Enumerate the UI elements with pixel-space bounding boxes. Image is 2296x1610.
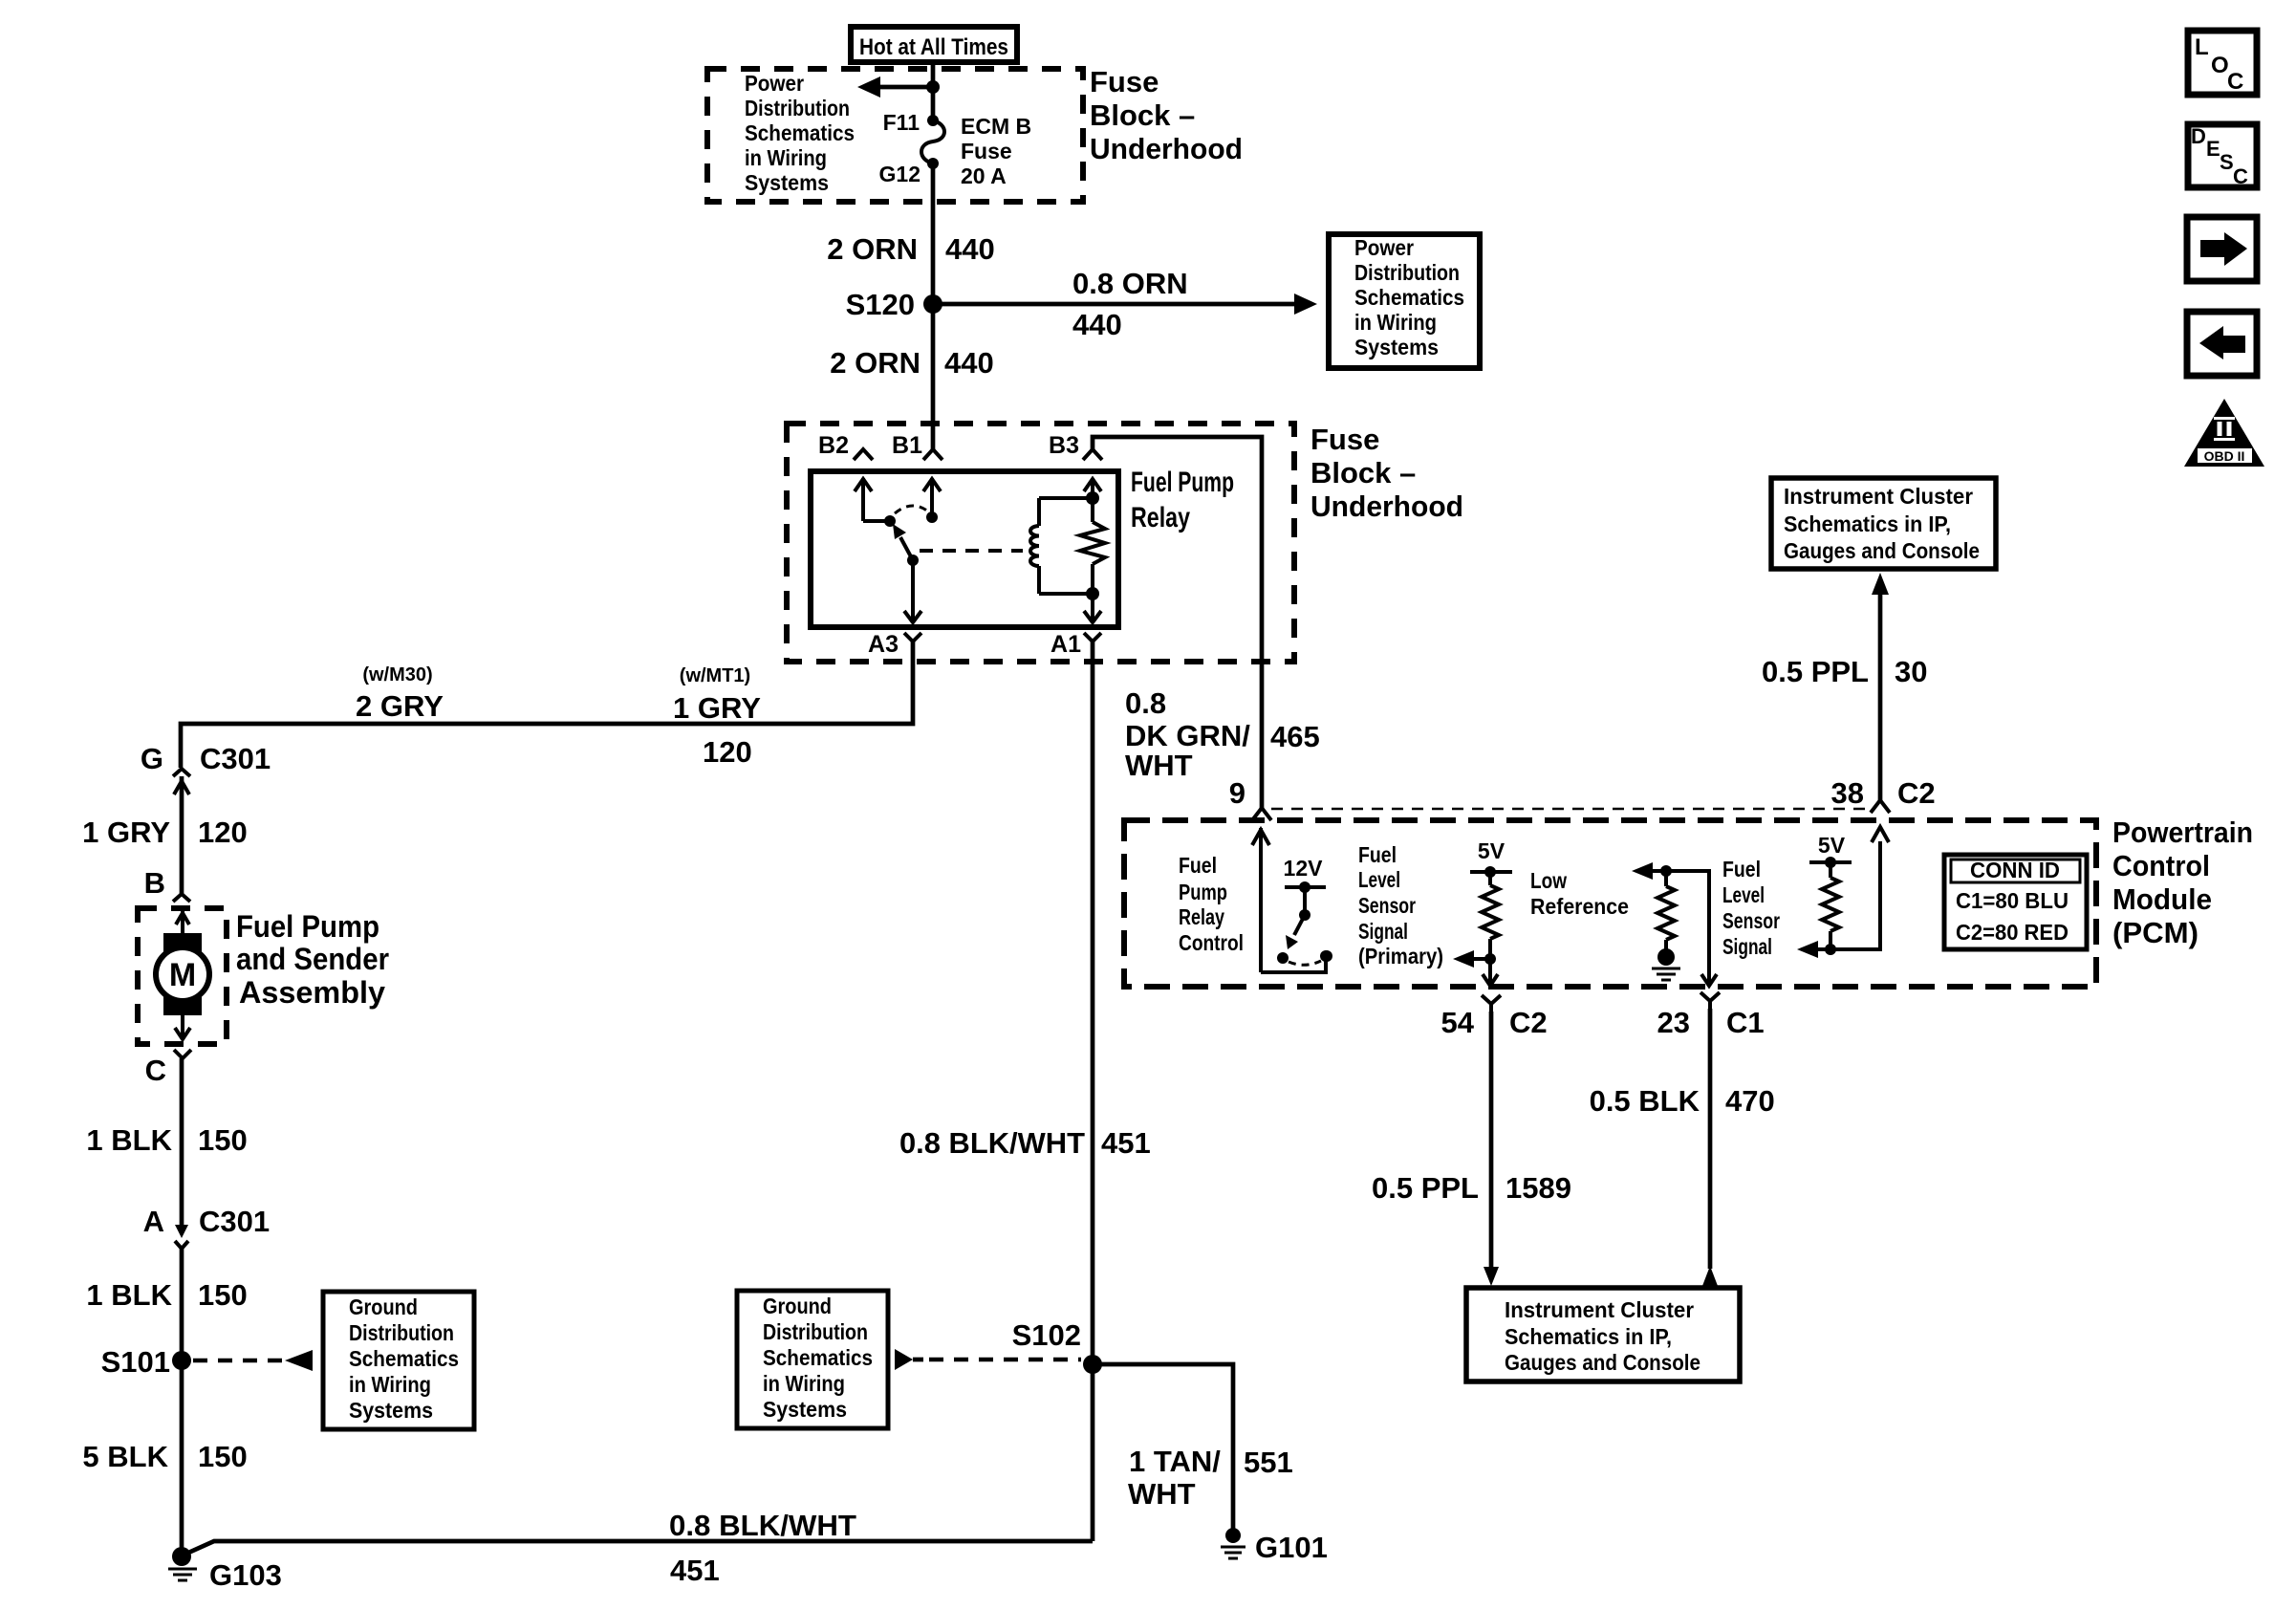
svg-text:in Wiring: in Wiring (1354, 310, 1437, 335)
svg-text:54: 54 (1441, 1006, 1475, 1039)
svg-text:C301: C301 (200, 742, 271, 775)
relay switch movable arm (893, 524, 919, 566)
wire pin 38 up to instrument cluster (0.5 PPL 30) (1872, 573, 1889, 800)
svg-text:Distribution: Distribution (763, 1319, 868, 1344)
icon right-arrow button (2187, 217, 2257, 281)
relay switch output to A3 (904, 560, 921, 622)
relay internal resistor (B3-A1) (1080, 478, 1105, 622)
svg-text:ECM B: ECM B (961, 114, 1031, 139)
resistor fuel level signal primary (5V pull-up) (1470, 838, 1512, 965)
svg-text:in Wiring: in Wiring (745, 145, 827, 170)
icon OBD II symbol (2184, 399, 2264, 467)
wire label 1 TAN/WHT 551 (1128, 1445, 1293, 1511)
svg-text:Control: Control (2112, 849, 2210, 882)
wire S101 down to G103 (180, 1360, 184, 1556)
svg-text:(w/MT1): (w/MT1) (680, 665, 750, 686)
svg-text:Schematics in IP,: Schematics in IP, (1784, 511, 1951, 536)
PCM U1 powertrain control module dashed box (1124, 820, 2096, 987)
svg-text:Gauges and Console: Gauges and Console (1505, 1350, 1700, 1375)
svg-text:C: C (2233, 164, 2248, 188)
arrow primary signal to pin 54 (1453, 950, 1498, 986)
reference box Power Distribution Schematics in Wiring Systems (right) (1329, 234, 1480, 368)
svg-text:Fuse: Fuse (1310, 423, 1379, 456)
svg-text:Sensor: Sensor (1358, 893, 1416, 918)
svg-text:B2: B2 (818, 432, 849, 459)
svg-text:D: D (2191, 124, 2206, 148)
svg-text:C1: C1 (1726, 1006, 1765, 1039)
ground G101 (1221, 1528, 1328, 1564)
label Powertrain Control Module (PCM) (2112, 816, 2253, 949)
svg-text:38: 38 (1831, 776, 1864, 810)
svg-text:Fuel: Fuel (1179, 853, 1217, 878)
svg-text:120: 120 (703, 735, 752, 769)
svg-text:440: 440 (944, 346, 994, 380)
svg-text:0.5 PPL: 0.5 PPL (1762, 655, 1869, 688)
pin 54 connector and label (1441, 995, 1548, 1039)
pin B2 label and connector (818, 432, 873, 460)
svg-text:WHT: WHT (1125, 749, 1193, 782)
svg-text:Hot at All Times: Hot at All Times (859, 34, 1008, 60)
svg-text:C: C (2227, 69, 2243, 95)
svg-text:Gauges and Console: Gauges and Console (1784, 538, 1980, 563)
svg-text:Module: Module (2112, 882, 2212, 916)
dashed reference wire S101 to ground distribution box (193, 1350, 313, 1371)
svg-text:Instrument Cluster: Instrument Cluster (1784, 484, 1973, 509)
svg-text:23: 23 (1657, 1006, 1690, 1039)
svg-text:(w/M30): (w/M30) (362, 664, 432, 685)
node S101 splice (101, 1345, 191, 1379)
pin 38 connector and label (1831, 776, 1936, 813)
wire label 0.8 BLK/WHT 451 (vertical run) (899, 1126, 1151, 1160)
fuse ECM B 20A (921, 115, 944, 169)
wire label 5 BLK 150 (82, 1440, 247, 1473)
svg-text:S102: S102 (1012, 1318, 1081, 1352)
svg-text:Distribution: Distribution (349, 1320, 454, 1345)
svg-text:in Wiring: in Wiring (763, 1371, 845, 1396)
wire C down to connector C301 pin A (180, 1058, 184, 1229)
icon left-arrow button (2187, 312, 2257, 376)
label Fuel Level Sensor Signal (1722, 857, 1780, 959)
svg-text:Systems: Systems (349, 1398, 433, 1423)
wire label 0.5 PPL 30 (1762, 655, 1927, 688)
svg-text:and Sender: and Sender (236, 942, 389, 976)
pin A1 label and connector (1051, 631, 1101, 658)
fuel pump and sender assembly dashed box (138, 908, 227, 1044)
svg-text:in Wiring: in Wiring (349, 1372, 431, 1397)
svg-text:S: S (2220, 150, 2234, 174)
svg-text:Pump: Pump (1179, 880, 1227, 904)
wire label 0.8 DK GRN/WHT 465 (1125, 686, 1320, 782)
svg-text:9: 9 (1229, 776, 1245, 810)
svg-text:0.8 ORN: 0.8 ORN (1072, 267, 1188, 300)
svg-text:2 GRY: 2 GRY (356, 689, 444, 723)
svg-text:Ground: Ground (763, 1294, 832, 1318)
svg-text:30: 30 (1895, 655, 1927, 688)
svg-text:Relay: Relay (1179, 904, 1224, 929)
svg-text:20 A: 20 A (961, 163, 1007, 188)
wire label 2 ORN 440 (upper) (827, 232, 994, 266)
svg-text:Power: Power (745, 71, 804, 96)
svg-text:Control: Control (1179, 930, 1244, 955)
fuse block underhood (top) dashed box (707, 69, 1083, 202)
svg-text:C2: C2 (1509, 1006, 1548, 1039)
wire label 1 GRY 120 (82, 816, 248, 849)
label Fuel Level Sensor Signal (Primary) (1358, 842, 1443, 968)
reference box Ground Distribution Schematics in Wiring Systems (middle) (737, 1291, 888, 1428)
wire label 2 ORN 440 (lower) (830, 346, 993, 380)
svg-text:0.5 BLK: 0.5 BLK (1590, 1084, 1700, 1118)
svg-text:12V: 12V (1284, 856, 1324, 881)
icon LOC button (2188, 31, 2257, 95)
svg-text:Level: Level (1722, 882, 1765, 907)
svg-text:Distribution: Distribution (745, 96, 850, 120)
svg-text:Schematics in IP,: Schematics in IP, (1505, 1324, 1672, 1349)
svg-text:Distribution: Distribution (1354, 260, 1460, 285)
svg-text:C2=80 RED: C2=80 RED (1956, 920, 2069, 945)
svg-text:150: 150 (198, 1440, 248, 1473)
wire A3 down, left and to fuel pump (GRY 120) (181, 642, 913, 768)
label Fuel Pump and Sender Assembly (236, 909, 389, 1010)
wire label (w/MT1) 1 GRY 120 (673, 665, 761, 769)
svg-text:S101: S101 (101, 1345, 170, 1379)
pin 9 connector chevron (1252, 808, 1271, 820)
svg-text:150: 150 (198, 1278, 248, 1312)
svg-text:M: M (169, 957, 196, 993)
svg-text:Ground: Ground (349, 1295, 418, 1319)
svg-text:Fuse: Fuse (1090, 65, 1159, 98)
pin B3 label and connector (1049, 432, 1102, 460)
svg-text:O: O (2211, 53, 2229, 78)
label Low Reference (1530, 868, 1629, 919)
reference box Instrument Cluster Schematics in IP, Gauges and Console (top) (1771, 478, 1996, 569)
svg-text:Schematics: Schematics (745, 120, 855, 145)
svg-text:Systems: Systems (1354, 335, 1439, 359)
reference box Instrument Cluster Schematics in IP, Gauges and Console (bottom) (1466, 1288, 1740, 1382)
svg-text:Powertrain: Powertrain (2112, 816, 2253, 849)
motor M fuel pump (156, 911, 209, 1039)
svg-text:G12: G12 (879, 162, 921, 186)
svg-text:E: E (2206, 137, 2220, 161)
relay actuation dashed link (920, 549, 1023, 553)
wire fuse output down to S120 (931, 163, 936, 304)
svg-text:Power: Power (1354, 235, 1414, 260)
svg-text:A1: A1 (1051, 631, 1081, 658)
label Fuse Block - Underhood (top) (1090, 65, 1243, 165)
svg-text:Fuel: Fuel (1358, 842, 1397, 867)
fuse block underhood (relay) dashed box (787, 424, 1294, 662)
wire S102 right and down to G101 (1 TAN/WHT 551) (1093, 1364, 1233, 1530)
svg-text:2 ORN: 2 ORN (827, 232, 918, 266)
svg-text:Block –: Block – (1090, 98, 1195, 132)
svg-text:G: G (141, 742, 163, 775)
wire A1 down to S102 (1091, 642, 1095, 1364)
connector C301 pin A (143, 1205, 271, 1249)
PCM internal fuel pump relay control wire (1252, 828, 1332, 972)
svg-text:440: 440 (945, 232, 995, 266)
svg-text:120: 120 (198, 816, 248, 849)
svg-text:Schematics: Schematics (1354, 285, 1464, 310)
svg-text:451: 451 (670, 1554, 720, 1587)
svg-text:C1=80 BLU: C1=80 BLU (1956, 888, 2069, 913)
svg-text:1 GRY: 1 GRY (82, 816, 170, 849)
svg-text:551: 551 (1244, 1446, 1293, 1479)
pin A3 label and connector (868, 631, 921, 658)
icon DESC button (2188, 124, 2257, 188)
svg-text:150: 150 (198, 1123, 248, 1157)
svg-text:2 ORN: 2 ORN (830, 346, 921, 380)
svg-text:470: 470 (1725, 1084, 1775, 1118)
dashed reference wire S102 to ground distribution box (895, 1349, 1081, 1370)
svg-text:Fuel Pump: Fuel Pump (236, 909, 379, 944)
svg-text:Signal: Signal (1358, 919, 1408, 944)
wire label 1 BLK 150 (lower) (86, 1278, 247, 1312)
svg-text:0.5 PPL: 0.5 PPL (1372, 1171, 1479, 1205)
svg-text:Fuse: Fuse (961, 139, 1012, 163)
relay coil (1030, 498, 1093, 594)
wire from Hot at All Times box into fuse block (931, 63, 936, 120)
svg-text:Low: Low (1530, 868, 1567, 893)
svg-text:G103: G103 (209, 1558, 282, 1592)
resistor fuel level signal (5V pull-up right) (1809, 833, 1852, 955)
svg-text:OBD II: OBD II (2204, 448, 2245, 464)
wire label 0.5 BLK 470 (1590, 1084, 1775, 1118)
svg-text:C: C (145, 1054, 166, 1087)
connector C301 pin G (141, 742, 271, 894)
svg-text:Underhood: Underhood (1090, 132, 1243, 165)
svg-text:Assembly: Assembly (239, 975, 385, 1010)
wire pin 54 down to instrument cluster (0.5 PPL 1589) (1484, 1012, 1499, 1286)
svg-text:Systems: Systems (745, 170, 829, 195)
svg-text:L: L (2195, 34, 2209, 60)
svg-text:S120: S120 (846, 288, 915, 321)
wire label 1 BLK 150 (upper) (86, 1123, 247, 1157)
svg-text:Underhood: Underhood (1310, 490, 1463, 523)
wire S120 down to relay pin B1 (931, 304, 936, 449)
svg-text:5V: 5V (1478, 838, 1505, 863)
label Fuel Pump Relay Control (1179, 853, 1244, 955)
svg-text:1 GRY: 1 GRY (673, 691, 761, 725)
svg-text:Instrument Cluster: Instrument Cluster (1505, 1297, 1694, 1322)
wire fuel level signal to pin 38 (1797, 827, 1889, 958)
relay K fuel pump relay box (811, 471, 1118, 627)
svg-text:Fuel: Fuel (1722, 857, 1761, 881)
resistor low reference to ground (1652, 871, 1680, 980)
svg-text:1 BLK: 1 BLK (86, 1278, 172, 1312)
connector C2 dashed pin line (9 to 38) (1271, 808, 1870, 811)
svg-text:CONN ID: CONN ID (1970, 858, 2060, 882)
svg-text:(PCM): (PCM) (2112, 916, 2199, 949)
svg-text:Reference: Reference (1530, 894, 1629, 919)
CONN ID table (1944, 855, 2087, 949)
pin 23 connector and label (1657, 992, 1765, 1039)
svg-text:F11: F11 (883, 110, 921, 135)
svg-text:(Primary): (Primary) (1358, 944, 1443, 968)
value label ECM B Fuse 20 A (961, 114, 1031, 188)
pin C label and connector (145, 1050, 191, 1087)
node S102 splice (1012, 1318, 1102, 1374)
node Hot at All Times feed box (851, 27, 1017, 62)
svg-text:1589: 1589 (1505, 1171, 1571, 1205)
wire B3 up and over to PCM pin 9 (1093, 437, 1262, 808)
svg-text:Systems: Systems (763, 1397, 847, 1422)
wire 0.8 ORN 440 to power distribution box (933, 294, 1317, 315)
svg-text:5 BLK: 5 BLK (82, 1440, 168, 1473)
svg-text:B: B (144, 866, 165, 900)
svg-text:A: A (143, 1205, 164, 1238)
svg-text:Schematics: Schematics (763, 1345, 873, 1370)
wire S102 down and left to G103 (451 circuit) (186, 1364, 1093, 1554)
svg-text:C2: C2 (1897, 776, 1936, 810)
svg-text:Signal: Signal (1722, 934, 1772, 959)
svg-text:G101: G101 (1255, 1531, 1328, 1564)
label Fuel Pump Relay (1131, 467, 1234, 533)
svg-text:0.8 BLK/WHT: 0.8 BLK/WHT (899, 1126, 1085, 1160)
wire label (w/M30) 2 GRY (356, 664, 444, 723)
svg-text:WHT: WHT (1128, 1477, 1196, 1511)
relay internal B2 contact arm (855, 478, 896, 527)
wire label 0.8 BLK/WHT 451 (bottom run) (669, 1509, 856, 1587)
svg-text:Fuel Pump: Fuel Pump (1131, 467, 1234, 498)
svg-text:DK GRN/: DK GRN/ (1125, 719, 1250, 752)
svg-text:B1: B1 (892, 432, 922, 459)
pin B1 label and connector (892, 432, 942, 460)
low reference node and arrow (1632, 862, 1717, 986)
svg-text:1 BLK: 1 BLK (86, 1123, 172, 1157)
wire A down to S101 (180, 1249, 184, 1360)
wire branch to power distribution (arrow left) (857, 76, 940, 98)
reference box text Power Distribution Schematics in Wiring Systems (inside fuse block) (745, 71, 855, 195)
label Fuse Block - Underhood (relay) (1310, 423, 1463, 523)
svg-text:451: 451 (1101, 1126, 1151, 1160)
svg-text:465: 465 (1270, 720, 1320, 753)
reference box Ground Distribution Schematics in Wiring Systems (left) (323, 1292, 474, 1429)
svg-text:0.8: 0.8 (1125, 686, 1166, 720)
svg-text:Level: Level (1358, 867, 1400, 892)
node S120 splice (846, 288, 942, 321)
PCM internal 12V switch (1277, 856, 1332, 965)
svg-text:Schematics: Schematics (349, 1346, 459, 1371)
relay internal B1 contact (923, 478, 941, 523)
svg-text:C301: C301 (199, 1205, 270, 1238)
wire label 0.8 ORN 440 (1072, 267, 1188, 341)
svg-text:5V: 5V (1818, 833, 1846, 858)
ground G103 (168, 1547, 282, 1592)
wire label 0.5 PPL 1589 (1372, 1171, 1571, 1205)
svg-text:1 TAN/: 1 TAN/ (1129, 1445, 1221, 1478)
relay switch dashed throw arc (895, 506, 928, 513)
wire pin 23 down from instrument cluster (0.5 BLK 470) (1702, 1009, 1718, 1286)
svg-text:Sensor: Sensor (1722, 908, 1780, 933)
svg-text:440: 440 (1072, 308, 1122, 341)
svg-text:A3: A3 (868, 631, 899, 658)
svg-text:B3: B3 (1049, 432, 1079, 459)
svg-text:Block –: Block – (1310, 456, 1416, 490)
svg-text:Relay: Relay (1131, 502, 1190, 533)
pin B label and connector (fuel pump) (144, 866, 190, 902)
svg-text:0.8 BLK/WHT: 0.8 BLK/WHT (669, 1509, 856, 1542)
